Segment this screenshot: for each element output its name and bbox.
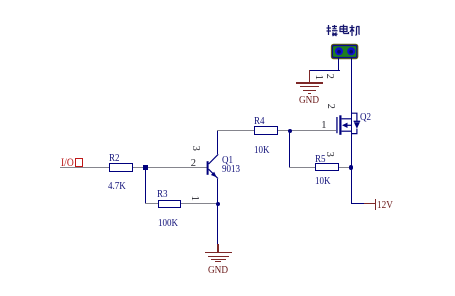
label R3 [157,189,168,200]
gate bar [336,117,337,133]
wire gnd row horizontal [309,70,340,71]
pin number 1 (Q1 emitter) [189,196,200,201]
value 100K (R3) [158,218,178,229]
junction (gate node) [288,129,292,133]
resistor R2 [109,163,132,171]
wire drain vertical (connector pin2 to Q2 and down to 12V row) [351,58,352,204]
wire emitter node down to GND [217,204,218,245]
pin number 1 (connector) [312,74,323,79]
body diode [351,113,357,121]
value 4.7K (R2) [108,181,126,192]
emitter lead [209,169,218,178]
wire R5 to source node [339,167,351,168]
wire R4 to junction to gate [278,130,336,131]
pin number 1 (Q2 gate) [321,121,326,132]
label R2 [109,153,120,164]
transistor Q1 (NPN 9013) [202,150,228,182]
wire base node down to R3 row [145,168,146,204]
value 9013 (Q1) [222,164,240,175]
wire I/O to R2 [60,167,109,168]
wire connector pin1 stub down [338,58,339,70]
label 12V [377,201,393,212]
collector lead [209,154,219,164]
pin number 2 (connector) [324,74,335,79]
resistor R4 [254,126,277,134]
label GND (bottom) [208,266,228,277]
wire R4 row: collector corner to R4 [217,130,254,131]
resistor R5 [315,163,339,171]
label GND (top) [299,96,319,107]
designator Q2 [360,112,371,123]
wire Q1 emitter vertical [217,179,218,204]
ground GND (bottom) [217,244,218,252]
source stub [342,130,352,132]
wire Q1 collector vertical [217,131,218,154]
value 10K (R4) [254,145,270,156]
port I/O口 [61,158,74,170]
ground GND (top) [309,70,310,83]
value 10K (R5) [315,176,331,187]
junction (emitter node) [216,202,220,206]
label 接电机 [326,24,360,38]
pin number 3 (Q2 source) [324,151,335,156]
wire R3 row left [145,203,158,204]
power 12V [364,203,376,204]
resistor R3 [158,200,181,208]
designator Q1 [222,155,233,166]
wire R2 to base (through junction) [133,167,207,168]
connector J1 (接电机 terminal block) [330,43,360,61]
channel bar [339,115,341,135]
pin number 2 (Q1 base) [191,159,196,170]
wire R5 row left [289,167,314,168]
junction (source node) [349,165,353,169]
pin number 3 (Q1 collector) [190,145,201,150]
wire R3 to emitter node [181,203,218,204]
junction (base node) [143,165,147,169]
emitter arrow [211,172,217,178]
label R5 [315,154,326,165]
wire gate node down to R5 row [289,131,290,168]
bulk stub with arrow [346,124,352,126]
pin number 2 (Q2 drain) [324,104,335,109]
base bar [207,161,209,175]
wire 12V row [351,203,364,204]
label R4 [254,116,265,127]
drain stub [342,118,352,120]
transistor Q2 (NMOS with body diode) [330,108,366,138]
